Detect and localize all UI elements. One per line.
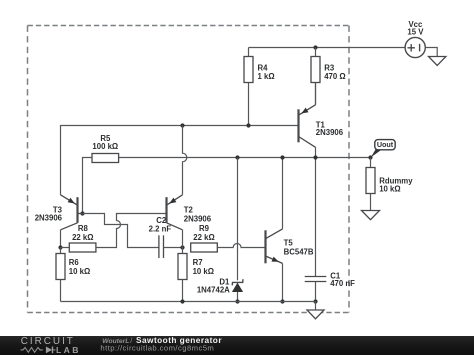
svg-text:http://circuitlab.com/cg8mc5m: http://circuitlab.com/cg8mc5m	[100, 344, 214, 353]
resistor R8	[61, 224, 96, 252]
node bottom rail / C1 / ground	[313, 299, 317, 303]
capacitor C1	[305, 271, 355, 301]
wire T1 emitter to R3	[315, 83, 317, 105]
svg-text:1N4742A: 1N4742A	[197, 286, 230, 295]
wire R9 to T5 base with hop	[217, 244, 265, 248]
svg-text:2.2 nF: 2.2 nF	[149, 224, 172, 233]
ground (Rdummy)	[362, 211, 380, 220]
footer title	[102, 335, 222, 345]
wire mid rail R5 to Uout	[119, 157, 371, 159]
resistor R6	[56, 248, 90, 302]
transistor T3	[35, 195, 83, 230]
node top rail / R3	[313, 45, 317, 49]
wire Vcc to ground	[425, 48, 437, 57]
node output / Uout	[368, 155, 372, 159]
dashed schematic boundary box	[28, 26, 350, 313]
footer url	[100, 344, 214, 353]
wire T2 emitter up with hop	[183, 126, 187, 195]
footer bar	[0, 336, 474, 355]
capacitor C2	[149, 216, 183, 258]
svg-text:100 kΩ: 100 kΩ	[92, 142, 118, 151]
transistor T1	[299, 105, 344, 148]
node bottom rail / T5 emitter	[280, 299, 284, 303]
svg-text:10 kΩ: 10 kΩ	[69, 267, 90, 276]
voltage source Vcc	[405, 20, 425, 58]
svg-text:T2: T2	[184, 206, 194, 215]
node bottom rail / D1	[235, 299, 239, 303]
ground (supply)	[429, 57, 446, 66]
transistor T2	[167, 195, 212, 230]
svg-text:LAB: LAB	[56, 345, 81, 355]
svg-text:R8: R8	[78, 224, 89, 233]
wire D1 cathode up	[237, 158, 239, 281]
resistor Rdummy	[366, 158, 413, 211]
svg-text:15 V: 15 V	[407, 28, 424, 37]
svg-text:470 Ω: 470 Ω	[324, 72, 345, 81]
svg-text:22 kΩ: 22 kΩ	[193, 233, 214, 242]
node mid rail / D1	[235, 155, 239, 159]
node bottom rail / R7	[180, 299, 184, 303]
wire T1 collector down	[315, 147, 317, 157]
svg-text:1 kΩ: 1 kΩ	[258, 72, 275, 81]
wire top supply rail	[249, 47, 406, 49]
svg-text:10 kΩ: 10 kΩ	[379, 185, 400, 194]
svg-text:470 nF: 470 nF	[330, 279, 355, 288]
svg-text:R4: R4	[258, 63, 269, 72]
zener diode D1	[197, 278, 243, 302]
svg-text:22 kΩ: 22 kΩ	[72, 233, 93, 242]
resistor R5	[92, 134, 119, 163]
node T2 collector / C2 / R9 / R7	[180, 245, 184, 249]
wire T5 collector up	[282, 158, 284, 229]
svg-text:R6: R6	[69, 258, 80, 267]
svg-text:T5: T5	[284, 238, 294, 247]
node mid rail / T5 collector	[280, 155, 284, 159]
wire base rail to T1	[61, 125, 299, 127]
wire R8 to T2 base with hop	[96, 214, 167, 248]
wire T3 collector to node	[60, 230, 62, 248]
svg-text:R9: R9	[199, 224, 210, 233]
svg-text:R3: R3	[324, 63, 335, 72]
node base rail / R4	[246, 123, 250, 127]
wire T5 emitter down	[282, 263, 284, 301]
transistor T5	[266, 229, 314, 264]
svg-text:R7: R7	[193, 258, 203, 267]
resistor R9	[191, 224, 218, 252]
svg-text:10 kΩ: 10 kΩ	[193, 267, 214, 276]
resistor R7	[178, 248, 214, 302]
svg-text:2N3906: 2N3906	[184, 215, 212, 224]
svg-text:2N3906: 2N3906	[35, 213, 63, 222]
output flag Uout	[371, 140, 395, 158]
node R8 / R6 / T3 collector	[58, 245, 62, 249]
wire T3 base to C2	[83, 214, 159, 248]
svg-text:BC547B: BC547B	[284, 247, 314, 256]
wire T2 collector to node	[182, 230, 184, 248]
resistor R3	[311, 48, 346, 105]
CircuitLab logo	[21, 336, 81, 355]
node mid rail / C1 / T1 collector	[313, 155, 317, 159]
wire left rail to T3 emitter	[60, 125, 62, 195]
resistor R4	[244, 48, 275, 126]
wire bottom rail	[61, 301, 316, 303]
node base rail / T2 emitter	[180, 123, 184, 127]
svg-text:Uout: Uout	[377, 140, 394, 149]
ground (bottom)	[307, 310, 324, 319]
node T3 base / R5 / coupling wire	[80, 211, 84, 215]
wire T1 collector / C1 top	[315, 158, 317, 277]
wire to bottom ground	[315, 302, 317, 311]
wire R5 left lead down to T3 base	[83, 158, 93, 214]
svg-text:2N3906: 2N3906	[316, 128, 344, 137]
